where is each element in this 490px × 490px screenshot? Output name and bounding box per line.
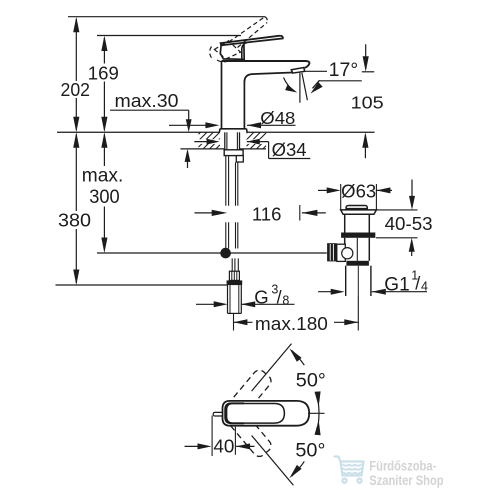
supply hose fitting [231, 258, 233, 271]
wire 50deg radius line upper [252, 344, 292, 392]
wire 50deg arc lower [292, 461, 305, 476]
wire dimension dia34 [194, 139, 220, 144]
faucet spout [222, 61, 310, 68]
lever handle blade [221, 36, 283, 46]
pull rod horizontal (max.300 ref) [97, 252, 327, 254]
handle plan left cap accent [225, 403, 244, 423]
svg-text:40: 40 [213, 437, 234, 457]
svg-text:max.30: max.30 [115, 91, 179, 111]
handle plan view outline [223, 401, 310, 426]
svg-text:max.: max. [82, 165, 124, 186]
wire dimension G3/8 [196, 303, 225, 305]
faucet centerline extension [233, 313, 235, 330]
svg-text:40-53: 40-53 [385, 213, 433, 234]
svg-text:Ø63: Ø63 [341, 181, 376, 201]
lever handle raised position (dashed) [229, 17, 265, 42]
svg-text:Ø48: Ø48 [260, 108, 295, 128]
svg-text:105: 105 [351, 92, 384, 112]
svg-text:8: 8 [282, 294, 289, 308]
wire dimension max.180 [233, 319, 247, 325]
drain tee housing [337, 244, 346, 261]
wire 50deg arc upper [292, 350, 305, 365]
node deck hatching [199, 132, 267, 149]
svg-text:17°: 17° [329, 60, 359, 81]
faucet locknut [224, 150, 243, 156]
wire max.30 leader [110, 109, 189, 111]
drain upper body [344, 214, 346, 232]
wire dimension 105 [365, 44, 367, 69]
drain flange [341, 210, 377, 214]
supply hose [227, 285, 229, 313]
svg-text:50°: 50° [296, 370, 326, 392]
wire dimension line 202 [75, 19, 77, 81]
node flow direction lines 17deg [299, 73, 301, 103]
svg-text:202: 202 [61, 80, 91, 100]
lever wedge base [220, 43, 244, 59]
node second-reference-line (169 level) [97, 35, 241, 37]
drain tailpipe [345, 266, 347, 296]
node countertop deck top line [57, 131, 220, 133]
svg-text:50°: 50° [295, 440, 325, 462]
svg-text:4: 4 [421, 279, 428, 293]
drain pop-up cap [346, 206, 367, 209]
wire dimension dia63 [318, 189, 327, 191]
node countertop deck bottom line [180, 148, 224, 150]
svg-text:169: 169 [88, 63, 119, 83]
svg-text:Szaniter Shop: Szaniter Shop [369, 473, 444, 489]
node 17deg arc arrows [284, 78, 295, 92]
faucet shank [224, 132, 226, 149]
node 17deg leader [305, 70, 328, 72]
svg-text:G: G [254, 287, 268, 308]
handle plan inner outline [227, 404, 285, 424]
drain seal ring (black) [341, 233, 375, 238]
wire dimension line 380 [75, 135, 77, 212]
svg-text:max.180: max.180 [255, 313, 328, 334]
wire max.30 lower arrow [187, 152, 189, 169]
supply pipes upper segment [225, 156, 227, 206]
wire 50deg radius line lower [252, 436, 294, 486]
wire dimension dia48 [169, 124, 216, 126]
handle rotated +50deg (dashed) [223, 368, 273, 423]
hose ribbed collar [229, 271, 239, 280]
node plan centerline [308, 412, 325, 414]
svg-text:/: / [277, 288, 282, 308]
svg-text:300: 300 [89, 187, 120, 208]
wire dimension 40-53 [411, 180, 413, 208]
wire 40 extension lines [211, 416, 213, 457]
drain lower body [344, 238, 346, 261]
wire dimension 116 [195, 212, 225, 214]
wire dimension G1-1/4 [318, 291, 341, 293]
faucet body column [222, 61, 245, 129]
wire dimension line 169 [103, 38, 105, 64]
svg-text:Ø34: Ø34 [272, 140, 307, 160]
faucet aerator outlet [291, 68, 304, 74]
svg-text:/: / [415, 274, 420, 294]
node bottom-reference-line (380 level) [56, 284, 228, 286]
node drain centerline extension [357, 296, 359, 331]
pull rod joint dot [220, 248, 231, 259]
lever wedge rotated position (dashed) [214, 41, 240, 59]
watermark shopping cart icon [335, 457, 364, 483]
wire dimension 40 [185, 445, 209, 447]
svg-text:G1: G1 [384, 274, 409, 295]
handle rotated -50deg (dashed) [223, 404, 273, 459]
handle pivot pin stub [213, 412, 222, 416]
drain knurled adjuster [327, 243, 337, 261]
svg-text:116: 116 [252, 204, 282, 225]
supply pipes mid segment [225, 222, 227, 248]
svg-text:380: 380 [58, 211, 91, 231]
faucet base flange [219, 129, 247, 133]
wire dimension line max.300 [103, 135, 105, 167]
lever neck [242, 42, 248, 58]
hose nut (dark) [227, 280, 243, 285]
node top-reference-line (202 level) [68, 16, 265, 18]
drain bottom nut (dark) [346, 261, 369, 266]
drain rod guide block [236, 156, 243, 162]
